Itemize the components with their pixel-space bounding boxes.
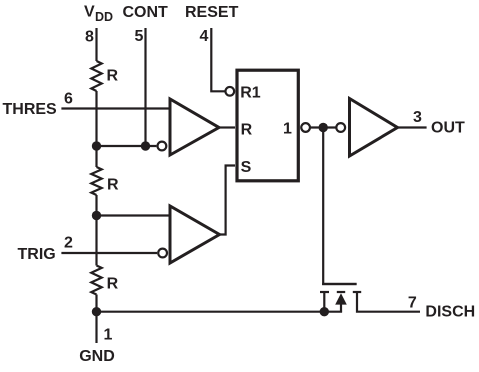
- resistor R2: [91, 167, 101, 195]
- wire TRIG input: [61, 252, 157, 254]
- svg-text:1: 1: [283, 120, 292, 137]
- svg-text:OUT: OUT: [431, 120, 465, 137]
- op-amp comparator U1: [170, 99, 219, 155]
- junction node CONT wire: [141, 141, 150, 150]
- svg-text:S: S: [241, 159, 252, 176]
- transistor Q1 bulk arrow: [335, 293, 347, 304]
- svg-text:3: 3: [413, 109, 422, 126]
- wire THRES input: [61, 107, 168, 109]
- op-amp output buffer U3: [350, 99, 398, 157]
- latch U4 box: [237, 70, 298, 181]
- inversion bubble buffer U3 input: [336, 123, 345, 132]
- svg-text:R: R: [241, 122, 253, 139]
- svg-text:R: R: [107, 177, 119, 194]
- wire transistor bulk stem: [340, 304, 342, 312]
- svg-text:DD: DD: [95, 10, 113, 24]
- junction node output: [319, 123, 328, 132]
- resistor R1: [91, 61, 101, 91]
- transistor Q1 gate bar: [322, 283, 357, 285]
- inversion bubble comparator U2 inverting input: [158, 249, 167, 258]
- svg-text:5: 5: [135, 28, 144, 45]
- wire buffer output to OUT: [398, 126, 427, 128]
- op-amp comparator U2: [170, 206, 220, 263]
- junction node CONT-rail: [92, 141, 101, 150]
- svg-text:V: V: [84, 4, 95, 21]
- svg-text:CONT: CONT: [123, 4, 169, 21]
- inversion bubble latch R1 input: [225, 87, 234, 96]
- svg-text:6: 6: [64, 91, 73, 108]
- svg-text:8: 8: [85, 28, 94, 45]
- wire VDD pin stub: [95, 28, 97, 61]
- inversion bubble latch output pin 1: [301, 123, 310, 132]
- wire rail R1 to R2: [95, 91, 97, 167]
- svg-text:1: 1: [104, 326, 113, 343]
- junction node GND-source: [320, 307, 329, 316]
- wire comparator U1 noninverting tap to U2: [97, 214, 169, 216]
- wire RESET pin line: [211, 28, 224, 91]
- svg-text:R: R: [107, 276, 119, 293]
- svg-text:RESET: RESET: [185, 4, 239, 21]
- resistor R3: [91, 266, 101, 295]
- wire comparator U1 output to latch R: [219, 126, 235, 128]
- svg-text:R: R: [107, 68, 119, 85]
- svg-text:4: 4: [200, 28, 209, 45]
- svg-text:TRIG: TRIG: [18, 246, 56, 263]
- transistor Q1 bulk contact bar: [337, 291, 345, 293]
- svg-text:2: 2: [64, 235, 73, 252]
- junction node rail-GND: [92, 307, 101, 316]
- wire latch output node: [310, 126, 336, 128]
- svg-text:DISCH: DISCH: [425, 304, 475, 321]
- svg-text:R1: R1: [240, 85, 261, 102]
- wire rail R3 to GND stub: [95, 295, 97, 344]
- inversion bubble comparator U1 inverting input: [158, 142, 167, 151]
- wire transistor source stub: [323, 292, 325, 312]
- svg-text:7: 7: [408, 295, 417, 312]
- svg-text:THRES: THRES: [3, 101, 58, 118]
- svg-text:GND: GND: [79, 348, 115, 365]
- transistor Q1 drain contact bar: [353, 291, 361, 293]
- wire comparator U2 output to latch S: [220, 166, 236, 235]
- wire output node to transistor gate: [323, 128, 356, 285]
- wire CONT node to comparator U1 inverting input: [97, 145, 157, 147]
- wire rail R2 to R3: [95, 195, 97, 266]
- wire GND rail to transistor source: [97, 311, 343, 313]
- transistor Q1 source contact bar: [320, 291, 329, 293]
- junction node rail-U2 input: [92, 211, 101, 220]
- wire transistor drain to DISCH: [357, 292, 420, 312]
- wire CONT pin line: [144, 28, 146, 146]
